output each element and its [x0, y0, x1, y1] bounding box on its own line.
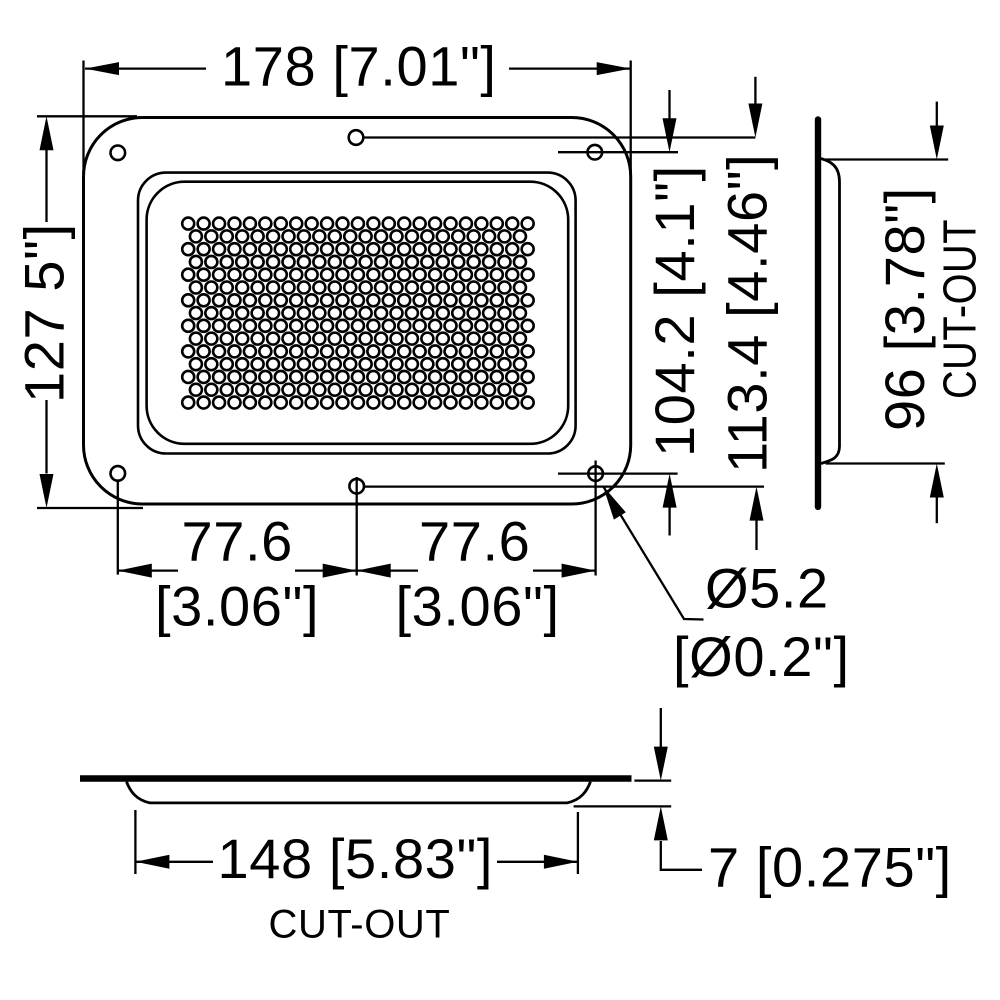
svg-text:Ø5.2: Ø5.2	[705, 557, 829, 620]
dimension 127 line bottom segment with down arrowhead	[45, 400, 47, 474]
dimension 178 extension line left	[82, 61, 84, 181]
dimension 127 extension line bottom	[37, 507, 143, 509]
leader line for hole diameter	[603, 486, 704, 620]
dimension 148 extension left	[134, 810, 136, 874]
recess lip inner (front view)	[147, 182, 569, 444]
svg-text:[3.06"]: [3.06"]	[155, 575, 319, 638]
dimension 178 right arrowhead	[597, 62, 631, 75]
svg-text:77.6: 77.6	[182, 509, 293, 572]
dimension 77.6 left: line and arrowheads	[118, 569, 178, 571]
dimension 113.4 top arrow	[754, 77, 756, 105]
77.6 extension through bottom-center hole	[356, 477, 358, 576]
crosshair vertical through bottom-right hole / 77.6 extension	[594, 461, 596, 576]
dimension 178 extension line right	[630, 61, 632, 181]
svg-text:127 5"]: 127 5"]	[12, 223, 75, 403]
mounting hole top-right	[588, 145, 603, 160]
svg-text:[Ø0.2"]: [Ø0.2"]	[673, 625, 850, 688]
dimension 113.4 bottom arrow	[755, 519, 757, 550]
dimension 96 bottom arrow	[936, 497, 938, 523]
svg-text:104.2 [4.1"]: 104.2 [4.1"]	[643, 165, 706, 457]
dimension 96 top arrow	[936, 102, 938, 127]
svg-text:96 [3.78"]: 96 [3.78"]	[873, 187, 936, 431]
dimension 148 extension right	[577, 812, 579, 874]
dimension 104.2 top arrow	[668, 90, 670, 120]
dimension 178 line right segment	[509, 67, 631, 69]
svg-text:178 [7.01"]: 178 [7.01"]	[221, 34, 497, 97]
dimension 7 down arrow	[660, 708, 662, 748]
dimension 7 extension bottom	[574, 805, 672, 807]
svg-text:CUT-OUT: CUT-OUT	[934, 219, 986, 399]
recess lip outer (front view)	[138, 173, 576, 454]
mounting hole top-left	[111, 146, 126, 161]
extension line from bottom-right hole	[558, 472, 678, 474]
dimension 77.6 right: line and arrowheads	[357, 569, 418, 571]
extension line from top-center hole	[364, 136, 755, 138]
svg-text:CUT-OUT: CUT-OUT	[269, 903, 451, 947]
dimension 148 line right with arrowhead	[497, 861, 578, 863]
mounting hole bottom-right (with crosshair)	[588, 466, 603, 481]
bottom view plate	[80, 775, 632, 781]
svg-text:77.6: 77.6	[419, 509, 530, 572]
perforation grid	[182, 218, 533, 409]
svg-text:[3.06"]: [3.06"]	[396, 575, 560, 638]
mounting hole top-center	[349, 130, 364, 145]
extension line from bottom-center hole	[365, 485, 764, 487]
dimension 127 extension line top	[37, 115, 137, 117]
leader arrowhead	[603, 486, 626, 520]
bottom view dish profile	[127, 782, 591, 803]
dimension 127 line top segment with up arrowhead	[45, 150, 47, 222]
svg-text:148 [5.83"]: 148 [5.83"]	[218, 827, 494, 890]
dimension 96 extension top	[826, 158, 949, 160]
mounting hole bottom-center	[349, 479, 364, 494]
dimension 178 left arrowhead	[85, 62, 119, 75]
svg-text:7 [0.275"]: 7 [0.275"]	[708, 836, 952, 899]
extension line from top-right hole	[558, 151, 678, 153]
mounting hole bottom-left	[111, 466, 126, 481]
side view dish profile	[821, 159, 840, 464]
side view plate (right)	[815, 120, 821, 507]
svg-text:113.4 [4.46"]: 113.4 [4.46"]	[716, 154, 779, 473]
dimension 104.2 bottom arrow	[668, 505, 670, 536]
77.6 extension from bottom-left hole	[117, 481, 119, 575]
dimension 96 extension bottom	[826, 462, 945, 464]
dimension 178 line left segment	[85, 67, 206, 69]
dimension 7 extension top	[634, 779, 671, 781]
dimension 7 up arrow with elbow	[661, 841, 702, 870]
panel outline (front view flange)	[84, 118, 631, 505]
dimension 148 line left with arrowhead	[135, 861, 213, 863]
